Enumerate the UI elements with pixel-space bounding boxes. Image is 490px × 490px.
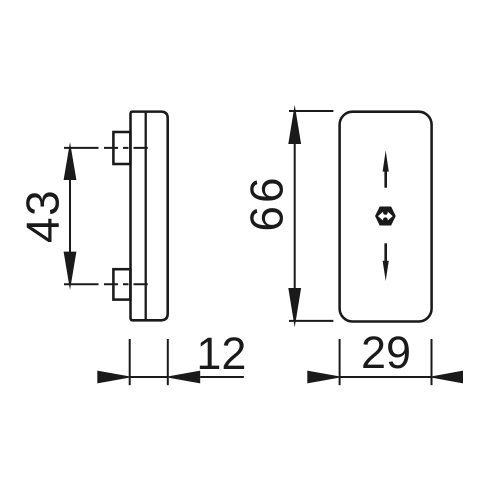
dimension 66: top extension line (289, 110, 333, 112)
dimension 43: dimension line (69, 178, 71, 253)
upper mounting peg (113, 132, 130, 164)
HOPPE logo: black dot above crossbar (383, 210, 388, 215)
left view: plate body (side profile) (131, 112, 168, 321)
dimension 12: dimension line between extension lines (130, 376, 168, 378)
dimension 12: left arrowhead (points right) (97, 371, 133, 384)
dimension 12: right arrowhead (points left) (165, 371, 201, 384)
left view: inner face edge line (145, 112, 147, 321)
upper peg center line (dash-dot) (64, 147, 148, 149)
dimension 29: right extension line (431, 339, 433, 385)
dimension 66: dimension line (294, 142, 296, 290)
dimension 29: right arrowhead (points left) (428, 371, 463, 384)
dimension 43: bottom arrowhead (64, 252, 77, 290)
lower peg center line (dash-dot) (64, 283, 148, 285)
dimension 66: bottom extension line (289, 320, 333, 322)
dimension 66: bottom arrowhead (288, 288, 301, 328)
HOPPE logo: black hexagon (376, 207, 395, 225)
right view: down arrow shaft (384, 243, 387, 262)
dimension 29: left arrowhead (points right) (307, 371, 343, 384)
svg-text:66: 66 (241, 174, 293, 231)
dimension 12: left extension line (129, 339, 131, 385)
dimension 43: top arrowhead (64, 142, 77, 180)
HOPPE logo: black dot below crossbar (383, 217, 388, 222)
svg-text:12: 12 (196, 328, 246, 379)
dimension 12: tail line under the text (200, 376, 244, 378)
dimension 66: top arrowhead (288, 105, 301, 144)
dimension 29: left extension line (339, 339, 341, 385)
right view: up arrowhead (383, 150, 389, 171)
right view: up arrow shaft (384, 170, 387, 188)
right view: down arrowhead (383, 261, 389, 281)
HOPPE logo: white H band (double arrow) (378, 212, 393, 221)
dimension 12: right extension line (167, 339, 169, 385)
svg-text:43: 43 (17, 189, 69, 243)
dimension 29: dimension line (340, 376, 432, 378)
right view: plate body (front face) (340, 112, 432, 322)
svg-text:29: 29 (361, 327, 411, 378)
lower mounting peg (113, 269, 130, 299)
